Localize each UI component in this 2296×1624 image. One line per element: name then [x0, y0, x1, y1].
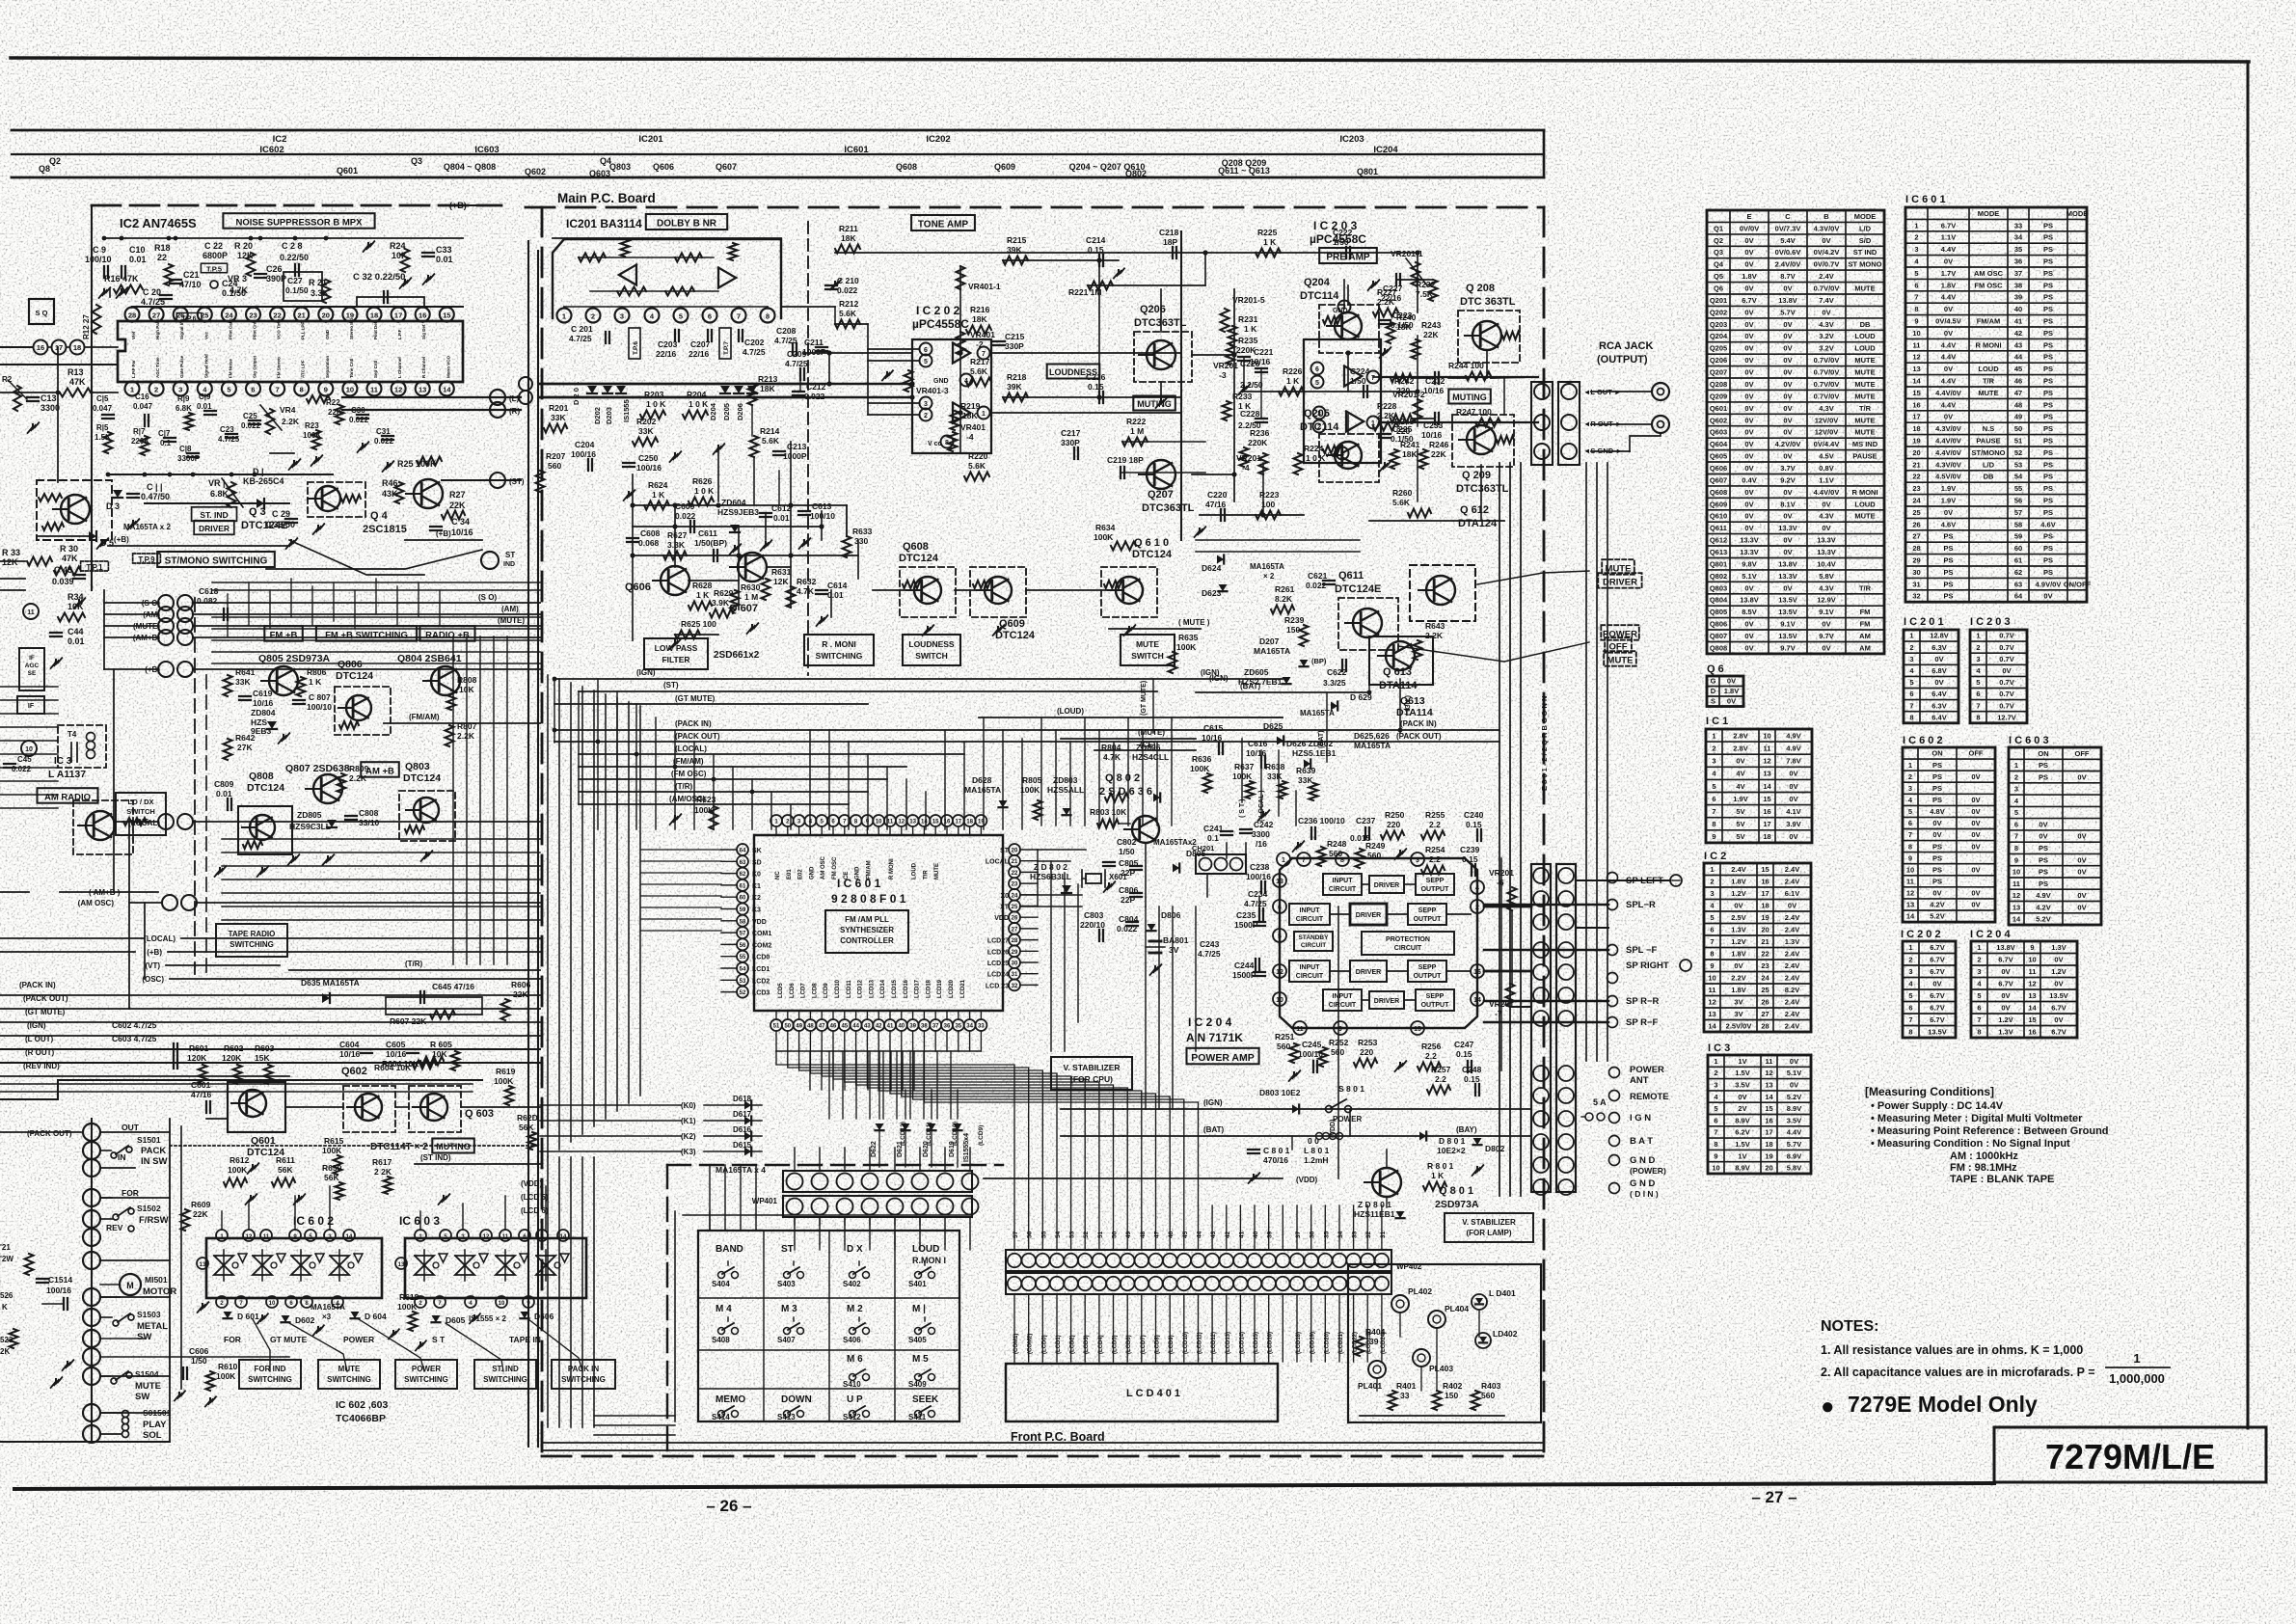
wire mute driver links [1477, 571, 1589, 584]
wire c218 rail [1119, 252, 1346, 254]
transistor Q609 dashed box [970, 567, 1026, 617]
wire +B top [328, 237, 463, 239]
transistor Q610 dashed box [1101, 567, 1157, 617]
ground ic2 bottom [293, 461, 295, 466]
wire q601 gnd [252, 1165, 254, 1170]
transistor Q207 symbol [1147, 460, 1175, 489]
wire ce local st cols [1241, 739, 1243, 802]
wire opampA out [993, 352, 1181, 354]
switch matrix S41x row4 [718, 1411, 725, 1418]
lo/dx switching label [116, 793, 166, 835]
wire power col [1349, 1109, 1351, 1136]
transistor Q2 symbol [86, 811, 115, 840]
wire preamp out L [1379, 376, 1538, 378]
preamp label [1319, 248, 1377, 263]
main board dashed border top [526, 206, 1544, 209]
wire main left verticals [527, 241, 529, 1447]
bus FM OSC main [579, 778, 887, 780]
resistor Q806 em [339, 721, 359, 729]
wire tape bottom [0, 1441, 170, 1443]
power off mute label [1601, 625, 1639, 640]
diode D604 [351, 1312, 360, 1318]
wire vdd bottom [984, 1177, 1283, 1179]
am radio label [38, 788, 98, 803]
dolby resistor row1 [579, 254, 606, 262]
wire dolby top rail [553, 237, 781, 239]
node heavy audio R [540, 396, 808, 398]
dolby label [646, 214, 727, 230]
opamp IC202 A [953, 343, 970, 364]
test point TP9 [133, 554, 161, 563]
standby circuit box [1294, 932, 1333, 951]
wire q206 row [1192, 354, 1234, 356]
pack in switching box [552, 1360, 615, 1389]
wire lamp verticals [1399, 1313, 1401, 1337]
bus CE mid [1094, 749, 1196, 751]
wire sol [100, 1412, 121, 1414]
low pass filter label [644, 638, 708, 669]
st ind switching box [474, 1360, 536, 1389]
wire q612 col [1503, 378, 1505, 415]
bus AM OSC main [579, 803, 849, 805]
junction dots top rail [102, 236, 107, 241]
bus TR main [579, 791, 868, 793]
IC204 pin 16 [1471, 964, 1484, 978]
transistor Q801 symbol [1372, 1168, 1401, 1197]
node 10 circle [21, 741, 37, 756]
diode D605 [432, 1315, 441, 1322]
wire rca links [1591, 391, 1652, 392]
st ind node [481, 552, 499, 569]
top band right closure [1543, 130, 1546, 177]
motor M1501 [120, 1274, 141, 1295]
connector strip B [1556, 864, 1576, 1192]
node am osc [162, 895, 177, 910]
wire q206 stem [1160, 382, 1162, 399]
wire lcd drop fan [809, 1051, 811, 1090]
wire pamp verticals [1500, 858, 1502, 1070]
wire preamp out R [1379, 421, 1538, 423]
IC603 pins top [415, 1230, 426, 1241]
tone amp label [911, 215, 975, 230]
protection circuit box [1362, 932, 1454, 955]
wire loudness rail [1244, 391, 1418, 392]
bus BAT [1196, 691, 1369, 693]
ground amp bottom [1399, 1063, 1401, 1068]
wire mid rail A [0, 364, 118, 365]
mute driver label [1602, 559, 1634, 575]
IC204 pin 13 [1273, 874, 1286, 887]
ground preamp row [1243, 386, 1245, 391]
top band line 3 [12, 176, 1544, 179]
transistor Q806 symbol [346, 695, 371, 720]
wire controller bottom fan2 [828, 1051, 830, 1119]
junction circles audio [519, 377, 532, 391]
front board dashed border [667, 1164, 1003, 1166]
wire s1503 [100, 1316, 112, 1318]
wire muting rails [206, 1118, 228, 1120]
ground q606 [674, 640, 676, 645]
if box [17, 696, 44, 714]
wire q205 col [1347, 415, 1349, 434]
vertical dashed LOCAL bus [194, 598, 196, 974]
IC602 pins bottom [216, 1296, 228, 1308]
wire ic602 top links [221, 1211, 223, 1230]
IC204 pin 7 [1297, 853, 1310, 866]
wire amp arrows row2 [1330, 913, 1350, 915]
wire bat vert right [1326, 692, 1328, 762]
IC204 pin 12 [1273, 964, 1286, 978]
wire wp401 drops [794, 1148, 796, 1171]
wire audio R main [540, 396, 912, 398]
opamp IC202 B [953, 403, 970, 423]
wire tr loop [386, 997, 482, 1015]
bus PACK IN main [554, 729, 1499, 731]
connector WP401 row1 [783, 1171, 972, 1192]
IC602 triacs [214, 1256, 233, 1275]
IC2 pins 1-14 [125, 382, 140, 396]
wire vertical dash x838 [807, 222, 809, 675]
rmoni switching label [804, 635, 874, 665]
led LD402 [1475, 1333, 1491, 1348]
wire top rail 2 [104, 237, 328, 239]
transistor Q206 symbol [1147, 340, 1175, 369]
label FM+B [264, 626, 303, 641]
transistor Q603 dashed box [409, 1086, 461, 1132]
wire wp402 risers [1013, 1205, 1015, 1250]
bus GT MUTE main [554, 703, 868, 705]
tape connector chain [91, 1119, 93, 1442]
wire matrix feed lines [709, 1211, 711, 1231]
wire left col verticals [103, 590, 105, 669]
connector WP402 row2 [1006, 1273, 1391, 1294]
if agc se box [19, 648, 44, 690]
wire vr201 col2 [1417, 392, 1418, 426]
wire bottom main bus [542, 1442, 1544, 1444]
transistor Q204 dashed box [1319, 305, 1379, 353]
resistor Q204 base [1323, 316, 1342, 324]
switch matrix inner lines [763, 1231, 765, 1421]
wire bat col [1368, 665, 1370, 692]
junction dots buses [553, 728, 557, 733]
IC204 pin 6 [1273, 900, 1286, 913]
wire x60 vertical [57, 347, 59, 482]
junction dots main top [630, 502, 635, 507]
bus ST main [579, 690, 1157, 692]
top band line 2 [12, 153, 1544, 155]
wire motor [100, 1296, 120, 1298]
for ind switching box [239, 1360, 301, 1389]
page right border [2247, 62, 2250, 1428]
IC204 pin 15 [1411, 1021, 1424, 1035]
ground row lpf [734, 546, 736, 551]
ground Q608 [927, 627, 929, 632]
ground d rows [261, 1315, 263, 1319]
wire bundle q802 col down [1145, 907, 1147, 1109]
wire speaker rows right [1484, 904, 1608, 907]
wire lcd fan right [776, 1051, 1014, 1205]
wire IC2 pin top rail [132, 306, 463, 308]
resistor Q209 coll [1497, 436, 1514, 444]
IC602 pins top [216, 1230, 228, 1241]
node heavy audio L [540, 383, 808, 385]
model title box 7279M/L/E [1994, 1427, 2266, 1482]
wire vertical x95 [91, 205, 93, 590]
pin 18 [70, 340, 85, 355]
transistor Q206 dashed box [1134, 332, 1192, 382]
IC601 right pins [1009, 844, 1020, 855]
IC204 pin 4 [1471, 880, 1484, 894]
wire r633 col [846, 505, 848, 536]
lcd401 box [1006, 1364, 1278, 1421]
diode D606 [521, 1312, 529, 1318]
wire sp left stub [1576, 880, 1670, 881]
transistor Q807 symbol [313, 774, 342, 803]
transistor Q804 [431, 666, 460, 695]
wire power rows [1123, 1108, 1531, 1110]
opamp dolby L [619, 265, 636, 285]
lamp area box [1348, 1264, 1541, 1422]
wire tone mid rail [1003, 259, 1119, 261]
IC2 AN7465S body [118, 321, 463, 382]
wire tone top rail [835, 252, 1119, 254]
resistor frag left [25, 1254, 34, 1275]
wire r222 c219 [1122, 441, 1205, 443]
ground row mid [219, 868, 221, 873]
main board dashed border bottom [542, 1455, 1544, 1458]
sepp output box 4 [1416, 989, 1454, 1011]
transistor Q608 dashed box [900, 567, 956, 617]
wire VR1 rail [145, 502, 289, 504]
transistor Q609 symbol [985, 577, 1012, 604]
wire vertical tone frame [1180, 231, 1182, 540]
transistor Q209 symbol [1467, 425, 1496, 454]
lamp PL401 [1368, 1361, 1386, 1378]
wire speaker L1 [1484, 906, 1531, 908]
test point TP6 rot [176, 313, 202, 322]
bus LOCAL main [579, 753, 964, 755]
transistor Q607 [738, 553, 767, 582]
transistor Q601 box [228, 1082, 285, 1132]
IC202 pins [920, 343, 932, 356]
IC601 top pins [770, 815, 782, 826]
wire dolby to tone [781, 306, 835, 308]
wire k0k3 to left [540, 1104, 681, 1106]
wire bundle left col x470 [452, 636, 454, 964]
diode column D619-D622 [876, 1123, 884, 1130]
transistor Q209 dashed box [1452, 415, 1514, 467]
transistor Q808 symbol [250, 815, 275, 840]
wire lpf verticals [632, 474, 634, 640]
connector strip A [1531, 864, 1551, 1192]
IC203 body [1304, 339, 1381, 463]
IC603 triacs [415, 1256, 434, 1275]
resistor Q1 emitter [42, 523, 64, 530]
wire c209 col [799, 374, 801, 392]
transistor Q1 symbol [61, 495, 90, 524]
switch matrix S4x row3 [850, 1374, 856, 1381]
transistor Q611 symbol [1353, 609, 1382, 637]
ground c227 [1372, 282, 1374, 286]
IC204 pin 2 [1471, 900, 1484, 913]
IC204 pin 14 [1471, 992, 1484, 1006]
diode D602 [282, 1315, 290, 1322]
test point TP1 [81, 561, 109, 571]
photocopy noise overlay [0, 0, 1, 1]
ground d802 [1476, 1167, 1478, 1172]
wire q607 join [689, 580, 739, 582]
wire lpf rail3 [633, 555, 858, 556]
wire L R out [342, 396, 521, 398]
wire pamp vr links [1512, 906, 1531, 907]
IC204 outline [1280, 858, 1477, 1028]
transistor Q603 symbol [420, 1094, 447, 1121]
transistor Q205 symbol [1335, 442, 1362, 469]
node cluster SO AM MUTE AMB [158, 595, 174, 610]
wire s1504 [100, 1375, 110, 1377]
input circuit box 3 [1289, 961, 1330, 982]
wire wp401 to matrix [794, 1217, 796, 1225]
label RADIO+B [419, 626, 474, 641]
transistor Q4 symbol [414, 479, 443, 508]
wire q3 to st lines [266, 550, 482, 569]
wire front risers to wp401 [794, 1244, 796, 1250]
transistor Q205 dashed box [1319, 434, 1379, 482]
transistor Q611 dashed box [1338, 598, 1398, 650]
muting label C [432, 1139, 474, 1153]
rca jack R [1652, 416, 1669, 433]
v stabilizer cpu box [1051, 1057, 1132, 1090]
IC601 left pins [737, 844, 748, 855]
IC601 body [754, 835, 1003, 1011]
IC602 pin 13 [197, 1258, 208, 1269]
input circuit box 2 [1289, 904, 1330, 925]
input circuit box 1 [1323, 874, 1362, 895]
st ind driver label [192, 507, 237, 522]
wire ST IND row [415, 1163, 540, 1165]
wire bundle left y600 rows [212, 582, 540, 583]
wire bus verticals mid [554, 679, 555, 743]
wire r213 col [751, 405, 753, 436]
transistor Q613 box [1369, 636, 1433, 685]
lamp PL403 [1413, 1349, 1430, 1367]
wire lamp rail [1360, 1415, 1504, 1417]
page bottom border [14, 1483, 1994, 1489]
connector WP402 row1 [1006, 1250, 1391, 1271]
bus MUTE mid [1061, 738, 1196, 740]
wire xtal col [1038, 849, 1086, 851]
ground Q1 [101, 540, 103, 545]
transformer T4 [58, 725, 106, 768]
wire r218 rail [1003, 396, 1099, 398]
wire left block stub rows y700-850 [0, 686, 58, 688]
wire +B mid2 [405, 539, 482, 541]
ground tape [202, 1304, 203, 1309]
wire bundle center verticals to controller [1040, 717, 1042, 826]
pin 17 [52, 340, 67, 355]
wire tape rows to bus [100, 1131, 170, 1133]
IC603 body [405, 1238, 586, 1298]
driver box 2 [1350, 904, 1387, 925]
wire c220 row [1200, 514, 1304, 516]
transistor Q3 symbol [315, 486, 340, 511]
opamp dolby R [718, 268, 736, 288]
wire mute row [1026, 589, 1115, 591]
transistor Q3 dashed box [308, 482, 365, 517]
IC203 pins [1311, 363, 1324, 375]
resistor Q808 em [243, 841, 262, 849]
transistor Q602 dashed box [343, 1086, 395, 1132]
tape block border [0, 1080, 482, 1099]
wire bundle bottom horizontals [594, 1415, 675, 1417]
transistor Q805 [269, 666, 298, 695]
IC204 pin 8 [1336, 853, 1349, 866]
power switching box [395, 1360, 457, 1389]
resistor Q208 coll [1502, 332, 1520, 339]
wire ic202 left pins [868, 348, 919, 350]
wire ic203 top [1343, 280, 1345, 307]
transistor voltage table [1707, 210, 1884, 654]
resistor Q205 base [1323, 446, 1342, 453]
transistor Q208 symbol [1472, 321, 1501, 350]
wire lpf rail1 [633, 504, 847, 506]
IC202 body rect [912, 339, 991, 453]
vr left [14, 386, 21, 411]
transistor Q808 box [238, 806, 292, 854]
wire preamp left col [1233, 289, 1235, 501]
wire st rail [442, 479, 521, 481]
opamp IC203 B [1346, 412, 1364, 432]
wire q801 col [1386, 1150, 1388, 1167]
transistor Q2 dashed box [73, 800, 133, 854]
resistor Q3 coll [341, 495, 361, 502]
dolby block outline [553, 239, 781, 318]
wire bundle main left verticals [547, 675, 549, 1157]
wire audio L main [540, 383, 912, 385]
wire +B mid [108, 545, 289, 547]
ground Q610 [1128, 627, 1130, 632]
wire q613 area top [1196, 717, 1283, 718]
wire x900 col [867, 324, 869, 415]
ground r623 [674, 816, 676, 821]
ground extra main [886, 372, 888, 376]
sepp output box 1 [1416, 874, 1454, 895]
wire bundle left block horizontals [212, 616, 540, 618]
wire bundle left deep horizontals [0, 1083, 473, 1085]
IC601 bottom pins [770, 1019, 782, 1031]
wire left bus stubs [0, 560, 25, 562]
resistor Q609 base [973, 581, 992, 588]
tape radio switching label [216, 924, 287, 957]
driver box 1 [1369, 876, 1404, 893]
capacitor frag [37, 1278, 48, 1280]
wire q612 row [1369, 520, 1504, 522]
rca jack L [1652, 383, 1669, 400]
muting label A [1133, 396, 1175, 411]
loudness label [1047, 365, 1100, 379]
wire T/R [289, 969, 540, 971]
wire q802 col [1145, 843, 1147, 907]
wire q209 stem [1480, 465, 1482, 521]
wire c216 row [1099, 396, 1181, 398]
switch matrix S40x row2 [718, 1328, 725, 1335]
input circuit box 4 [1323, 989, 1362, 1011]
ground r636 row [1262, 812, 1264, 817]
wire mid col x1076-1180 [1037, 850, 1039, 907]
label AM+B box [361, 762, 399, 777]
crystal X601 [1086, 874, 1101, 883]
wire r212 row [835, 323, 868, 325]
